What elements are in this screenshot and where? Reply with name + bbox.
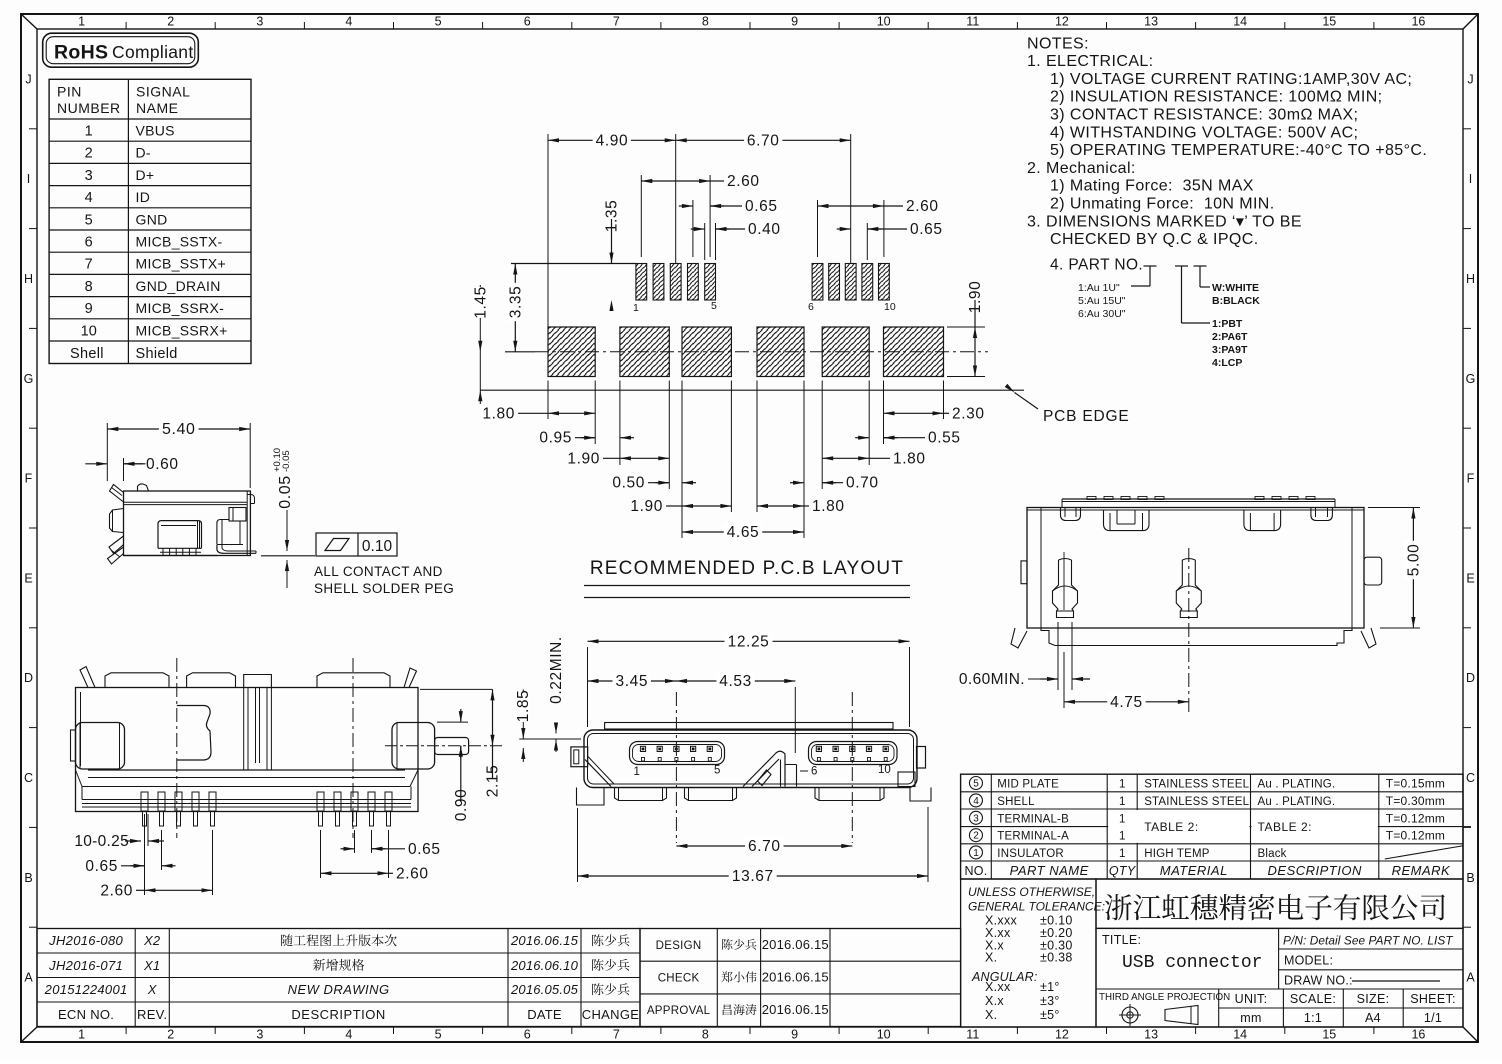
svg-text:0.65: 0.65 [745, 198, 778, 215]
svg-text:SHEET:: SHEET: [1410, 992, 1456, 1006]
svg-text:0.60: 0.60 [146, 456, 179, 473]
svg-text:1: 1 [1119, 779, 1125, 791]
svg-text:4) WITHSTANDING VOLTAGE: 500V: 4) WITHSTANDING VOLTAGE: 500V AC; [1050, 124, 1358, 141]
svg-text:0.65: 0.65 [910, 221, 943, 238]
svg-text:ALL CONTACT AND: ALL CONTACT AND [314, 564, 443, 579]
svg-text:NEW DRAWING: NEW DRAWING [288, 982, 390, 997]
svg-text:6.70: 6.70 [747, 132, 780, 149]
svg-text:14: 14 [1233, 15, 1247, 29]
svg-text:1: 1 [634, 766, 640, 778]
svg-text:2: 2 [85, 146, 93, 162]
svg-text:D-: D- [136, 145, 151, 161]
svg-text:0.55: 0.55 [928, 430, 961, 447]
svg-text:13: 13 [1144, 1028, 1158, 1042]
svg-text:THIRD ANGLE PROJECTION: THIRD ANGLE PROJECTION [1099, 992, 1230, 1003]
svg-text:I: I [1469, 172, 1472, 186]
svg-text:CHECKED BY Q.C & IPQC.: CHECKED BY Q.C & IPQC. [1050, 231, 1259, 248]
svg-text:T=0.15mm: T=0.15mm [1386, 777, 1445, 791]
svg-text:1:Au 1U": 1:Au 1U" [1078, 282, 1120, 294]
svg-text:JH2016-071: JH2016-071 [48, 958, 123, 973]
svg-text:1:PBT: 1:PBT [1212, 318, 1243, 330]
svg-text:6: 6 [811, 766, 817, 778]
svg-text:12: 12 [1055, 1028, 1069, 1042]
svg-text:HIGH TEMP: HIGH TEMP [1144, 848, 1210, 860]
svg-text:RECOMMENDED P.C.B LAYOUT: RECOMMENDED P.C.B LAYOUT [590, 558, 904, 579]
svg-text:STAINLESS STEEL: STAINLESS STEEL [1144, 779, 1249, 791]
svg-text:9: 9 [85, 301, 93, 317]
svg-text:DESCRIPTION: DESCRIPTION [291, 1007, 385, 1022]
svg-text:MODEL:: MODEL: [1284, 954, 1333, 968]
svg-text:1: 1 [85, 124, 93, 140]
svg-text:UNIT:: UNIT: [1235, 992, 1268, 1006]
svg-text:SIGNAL: SIGNAL [136, 84, 190, 100]
svg-text:PIN: PIN [57, 84, 82, 100]
svg-text:12.25: 12.25 [728, 633, 770, 650]
svg-text:1.35: 1.35 [604, 200, 621, 233]
svg-text:I: I [27, 172, 30, 186]
svg-text:1.90: 1.90 [967, 281, 984, 314]
svg-text:5) OPERATING TEMPERATURE:-40°C: 5) OPERATING TEMPERATURE:-40°C TO +85°C. [1050, 142, 1427, 159]
svg-text:TABLE 2:: TABLE 2: [1144, 820, 1198, 834]
svg-text:T=0.12mm: T=0.12mm [1386, 811, 1445, 825]
svg-text:2) INSULATION RESISTANCE: 100M: 2) INSULATION RESISTANCE: 100MΩ MIN; [1050, 89, 1383, 106]
svg-text:0.50: 0.50 [612, 475, 645, 492]
svg-text:QTY: QTY [1109, 864, 1137, 878]
svg-text:D: D [24, 671, 33, 685]
svg-text:2016.06.10: 2016.06.10 [510, 958, 579, 973]
svg-text:10: 10 [877, 1028, 891, 1042]
svg-text:MICB_SSTX+: MICB_SSTX+ [136, 256, 227, 272]
svg-text:D: D [1466, 671, 1475, 685]
svg-text:A: A [1466, 971, 1475, 985]
svg-text:1.90: 1.90 [630, 498, 663, 515]
svg-text:10: 10 [81, 323, 97, 339]
svg-text:2016.06.15: 2016.06.15 [510, 933, 579, 948]
svg-text:3: 3 [256, 15, 263, 29]
svg-text:USB connector: USB connector [1122, 953, 1262, 973]
svg-text:2: 2 [973, 831, 979, 842]
svg-text:5.00: 5.00 [1405, 544, 1422, 577]
svg-text:14: 14 [1233, 1028, 1247, 1042]
svg-text:X: X [147, 982, 158, 997]
svg-text:5: 5 [435, 15, 442, 29]
svg-text:4: 4 [345, 15, 352, 29]
svg-text:A4: A4 [1365, 1011, 1381, 1025]
svg-text:Shield: Shield [136, 346, 178, 362]
svg-text:GND: GND [136, 211, 168, 227]
svg-text:1: 1 [1119, 813, 1125, 825]
svg-text:NOTES:: NOTES: [1027, 35, 1089, 52]
svg-text:J: J [1467, 72, 1473, 86]
svg-text:0.70: 0.70 [846, 475, 879, 492]
svg-text:J: J [25, 72, 31, 86]
svg-text:0.65: 0.65 [408, 841, 441, 858]
svg-text:SHELL: SHELL [997, 796, 1035, 808]
svg-text:6: 6 [85, 235, 93, 251]
svg-text:4: 4 [345, 1028, 352, 1042]
svg-text:P/N: Detail See PART NO. LIST: P/N: Detail See PART NO. LIST [1283, 934, 1453, 948]
svg-text:T=0.30mm: T=0.30mm [1386, 794, 1445, 808]
svg-text:H: H [24, 272, 33, 286]
svg-text:1.45: 1.45 [472, 286, 489, 319]
svg-text:B:BLACK: B:BLACK [1212, 295, 1260, 307]
svg-text:0.60MIN.: 0.60MIN. [959, 671, 1025, 688]
svg-text:NO.: NO. [964, 864, 987, 878]
svg-text:3.35: 3.35 [507, 286, 524, 319]
svg-text:3: 3 [256, 1028, 263, 1042]
svg-text:G: G [1466, 372, 1476, 386]
svg-text:6: 6 [808, 301, 814, 313]
svg-text:C: C [1466, 771, 1475, 785]
svg-text:11: 11 [966, 15, 979, 29]
svg-text:±0.38: ±0.38 [1040, 951, 1073, 965]
svg-text:MATERIAL: MATERIAL [1160, 863, 1228, 878]
svg-text:10: 10 [877, 15, 891, 29]
svg-text:4.90: 4.90 [596, 132, 629, 149]
svg-text:5:Au 15U": 5:Au 15U" [1078, 295, 1126, 307]
svg-text:15: 15 [1322, 15, 1336, 29]
svg-text:1.80: 1.80 [893, 450, 926, 467]
svg-text:VBUS: VBUS [136, 123, 175, 139]
svg-text:±3°: ±3° [1040, 994, 1060, 1008]
svg-text:X.xx: X.xx [985, 980, 1011, 994]
svg-text:6: 6 [524, 1028, 531, 1042]
svg-text:TABLE 2:: TABLE 2: [1258, 820, 1312, 834]
svg-text:2: 2 [167, 1028, 174, 1042]
svg-text:1: 1 [973, 848, 979, 859]
svg-text:Black: Black [1258, 848, 1287, 860]
svg-text:2016.06.15: 2016.06.15 [762, 937, 829, 952]
svg-text:13.67: 13.67 [732, 868, 774, 885]
svg-text:5: 5 [435, 1028, 442, 1042]
svg-text:2016.05.05: 2016.05.05 [510, 982, 579, 997]
svg-text:JH2016-080: JH2016-080 [48, 933, 123, 948]
svg-text:5: 5 [973, 779, 979, 790]
svg-text:1:1: 1:1 [1304, 1011, 1322, 1025]
svg-text:5: 5 [714, 765, 720, 777]
svg-text:0.65: 0.65 [85, 858, 118, 875]
svg-text:X2: X2 [143, 933, 161, 948]
svg-text:1: 1 [1119, 831, 1125, 843]
svg-text:5: 5 [85, 212, 93, 228]
svg-text:H: H [1466, 272, 1475, 286]
svg-text:0.90: 0.90 [453, 789, 470, 822]
svg-text:X1: X1 [143, 958, 161, 973]
svg-text:6: 6 [524, 15, 531, 29]
svg-text:7: 7 [85, 257, 93, 273]
svg-text:X.: X. [985, 1008, 997, 1022]
svg-text:4: 4 [973, 796, 979, 807]
svg-text:TERMINAL-B: TERMINAL-B [997, 813, 1069, 825]
svg-text:±1°: ±1° [1040, 980, 1060, 994]
svg-text:20151224001: 20151224001 [44, 982, 128, 997]
svg-text:MID PLATE: MID PLATE [997, 779, 1059, 791]
svg-text:2.60: 2.60 [396, 865, 429, 882]
svg-text:2.60: 2.60 [906, 198, 939, 215]
svg-text:TERMINAL-A: TERMINAL-A [997, 831, 1069, 843]
svg-text:TITLE:: TITLE: [1102, 933, 1141, 947]
svg-text:1) VOLTAGE CURRENT RATING:1AMP: 1) VOLTAGE CURRENT RATING:1AMP,30V AC; [1050, 71, 1412, 88]
svg-text:1: 1 [78, 15, 85, 29]
svg-text:0.05: 0.05 [277, 475, 294, 509]
svg-text:4.53: 4.53 [719, 673, 752, 690]
svg-text:ID: ID [136, 189, 151, 205]
svg-text:2.60: 2.60 [727, 173, 760, 190]
svg-text:Shell: Shell [70, 346, 104, 362]
svg-text:15: 15 [1322, 1028, 1336, 1042]
svg-text:MICB_SSTX-: MICB_SSTX- [136, 234, 223, 250]
svg-text:10-0.25: 10-0.25 [74, 833, 129, 850]
svg-text:1.80: 1.80 [482, 405, 515, 422]
svg-text:5.40: 5.40 [162, 421, 196, 438]
svg-text:A: A [24, 971, 33, 985]
svg-text:2.60: 2.60 [100, 882, 133, 899]
svg-text:1: 1 [78, 1028, 85, 1042]
svg-text:C: C [24, 771, 33, 785]
svg-text:SCALE:: SCALE: [1290, 992, 1336, 1006]
svg-text:REMARK: REMARK [1392, 863, 1451, 878]
svg-text:GND_DRAIN: GND_DRAIN [136, 278, 221, 294]
svg-text:0.10: 0.10 [362, 538, 393, 555]
svg-text:ECN NO.: ECN NO. [58, 1007, 114, 1022]
svg-text:1: 1 [1119, 796, 1125, 808]
svg-text:-0.05: -0.05 [281, 450, 292, 472]
svg-text:1) Mating Force: 35N MAX: 1) Mating Force: 35N MAX [1050, 178, 1254, 195]
svg-text:2) Unmating Force: 10N MIN.: 2) Unmating Force: 10N MIN. [1050, 196, 1275, 213]
svg-text:DATE: DATE [527, 1007, 562, 1022]
svg-text:SHELL SOLDER PEG: SHELL SOLDER PEG [314, 581, 454, 596]
svg-text:8: 8 [702, 15, 709, 29]
svg-text:NAME: NAME [136, 100, 178, 116]
svg-text:6:Au 30U": 6:Au 30U" [1078, 308, 1126, 320]
svg-text:DRAW NO.:: DRAW NO.: [1284, 974, 1353, 988]
svg-text:D+: D+ [136, 167, 155, 183]
svg-text:W:WHITE: W:WHITE [1212, 282, 1259, 294]
svg-text:RoHS: RoHS [54, 42, 108, 64]
svg-text:GENERAL TOLERANCE:: GENERAL TOLERANCE: [968, 900, 1105, 914]
svg-text:MICB_SSRX+: MICB_SSRX+ [136, 322, 228, 338]
svg-text:CHANGE: CHANGE [582, 1007, 639, 1022]
svg-text:REV.: REV. [137, 1007, 167, 1022]
svg-text:3:PA9T: 3:PA9T [1212, 344, 1248, 356]
svg-text:4.65: 4.65 [727, 524, 760, 541]
svg-text:11: 11 [966, 1028, 979, 1042]
svg-text:10: 10 [878, 764, 891, 776]
svg-text:16: 16 [1411, 1028, 1425, 1042]
svg-text:3.45: 3.45 [616, 673, 649, 690]
svg-text:E: E [1466, 571, 1474, 585]
svg-text:2.30: 2.30 [952, 405, 985, 422]
svg-text:PART NAME: PART NAME [1010, 863, 1089, 878]
svg-text:0.40: 0.40 [748, 221, 781, 238]
svg-text:1.90: 1.90 [567, 450, 600, 467]
svg-text:APPROVAL: APPROVAL [647, 1005, 711, 1017]
svg-text:mm: mm [1240, 1011, 1261, 1025]
svg-text:2.15: 2.15 [485, 765, 502, 798]
svg-text:SIZE:: SIZE: [1357, 992, 1390, 1006]
svg-text:Au . PLATING.: Au . PLATING. [1258, 779, 1336, 791]
svg-text:12: 12 [1055, 15, 1069, 29]
svg-text:13: 13 [1144, 15, 1158, 29]
svg-text:DESCRIPTION: DESCRIPTION [1268, 863, 1362, 878]
svg-text:7: 7 [613, 15, 620, 29]
svg-text:7: 7 [613, 1028, 620, 1042]
svg-text:NUMBER: NUMBER [57, 100, 121, 116]
svg-text:DESIGN: DESIGN [656, 940, 702, 952]
svg-text:Compliant: Compliant [112, 42, 193, 62]
svg-text:B: B [1466, 871, 1474, 885]
svg-text:Au . PLATING.: Au . PLATING. [1258, 796, 1336, 808]
svg-text:1.80: 1.80 [812, 498, 845, 515]
svg-text:3: 3 [973, 813, 979, 824]
svg-text:4. PART NO.: 4. PART NO. [1050, 256, 1143, 273]
svg-text:0.95: 0.95 [539, 430, 572, 447]
svg-text:X.x: X.x [985, 994, 1004, 1008]
svg-text:8: 8 [702, 1028, 709, 1042]
svg-text:B: B [24, 871, 32, 885]
svg-text:MICB_SSRX-: MICB_SSRX- [136, 300, 225, 316]
svg-text:6.70: 6.70 [748, 838, 781, 855]
svg-text:16: 16 [1411, 15, 1425, 29]
svg-text:2:PA6T: 2:PA6T [1212, 331, 1248, 343]
svg-text:0.22MIN.: 0.22MIN. [548, 636, 565, 704]
svg-text:3) CONTACT RESISTANCE: 30mΩ MA: 3) CONTACT RESISTANCE: 30mΩ MAX; [1050, 107, 1358, 124]
svg-text:PCB EDGE: PCB EDGE [1043, 408, 1130, 425]
svg-text:T=0.12mm: T=0.12mm [1386, 829, 1445, 843]
svg-text:9: 9 [791, 15, 798, 29]
svg-text:1: 1 [633, 302, 639, 314]
svg-text:INSULATOR: INSULATOR [997, 848, 1064, 860]
svg-text:2016.06.15: 2016.06.15 [762, 1002, 829, 1017]
svg-text:F: F [25, 472, 33, 486]
svg-text:X.: X. [985, 951, 997, 965]
svg-text:F: F [1467, 472, 1475, 486]
svg-text:2. Mechanical:: 2. Mechanical: [1027, 160, 1136, 177]
svg-text:G: G [24, 372, 34, 386]
svg-text:4: 4 [85, 190, 93, 206]
svg-text:E: E [24, 571, 32, 585]
svg-text:±5°: ±5° [1040, 1008, 1060, 1022]
svg-text:9: 9 [791, 1028, 798, 1042]
svg-text:1/1: 1/1 [1424, 1011, 1442, 1025]
svg-text:3. DIMENSIONS MARKED ‘▾’ TO BE: 3. DIMENSIONS MARKED ‘▾’ TO BE [1027, 213, 1302, 230]
svg-text:5: 5 [711, 300, 717, 312]
svg-text:4:LCP: 4:LCP [1212, 357, 1242, 369]
svg-text:1.85: 1.85 [515, 690, 532, 723]
svg-text:2: 2 [167, 15, 174, 29]
svg-text:CHECK: CHECK [658, 973, 700, 985]
svg-text:2016.06.15: 2016.06.15 [762, 970, 829, 985]
svg-text:STAINLESS STEEL: STAINLESS STEEL [1144, 796, 1249, 808]
svg-text:4.75: 4.75 [1110, 694, 1143, 711]
svg-text:1. ELECTRICAL:: 1. ELECTRICAL: [1027, 53, 1154, 70]
svg-text:8: 8 [85, 279, 93, 295]
svg-text:10: 10 [884, 301, 896, 313]
svg-text:1: 1 [1119, 848, 1125, 860]
svg-text:UNLESS OTHERWISE,: UNLESS OTHERWISE, [968, 885, 1095, 899]
svg-text:3: 3 [85, 168, 93, 184]
